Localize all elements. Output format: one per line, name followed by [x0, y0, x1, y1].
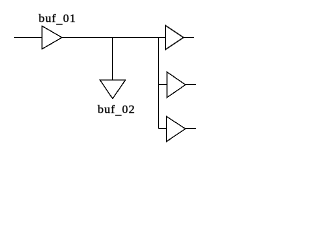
- wire stub to middle right buffer: [159, 84, 168, 86]
- buffer buf_01: [42, 26, 62, 49]
- wire output middle right buffer: [186, 84, 197, 86]
- buffer top right: [166, 26, 184, 50]
- svg-text:buf_01: buf_01: [39, 11, 77, 26]
- wire vertical bus to lower buffers: [158, 38, 160, 129]
- buffer middle right: [167, 72, 186, 98]
- buffer buf_02: [100, 80, 125, 99]
- buffer bottom right: [167, 117, 186, 142]
- wire output bottom right buffer: [186, 128, 197, 130]
- wire branch down to buf_02: [112, 38, 114, 81]
- svg-text:buf_02: buf_02: [98, 102, 136, 117]
- wire output top right buffer: [184, 37, 195, 39]
- wire stub to bottom right buffer: [159, 128, 167, 130]
- wire input to buf_01: [14, 37, 42, 39]
- wire main net buf_01 output: [62, 37, 166, 39]
